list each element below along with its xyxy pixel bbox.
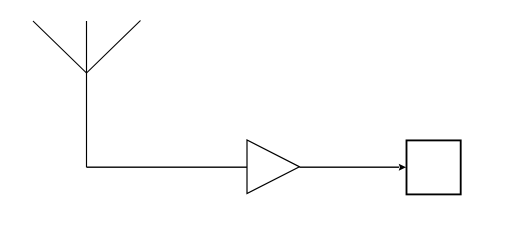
- antenna left arm: [33, 21, 87, 73]
- antenna right arm: [87, 21, 141, 74]
- wire from amplifier to box (with arrowhead): [300, 166, 400, 168]
- antenna: [33, 21, 141, 168]
- arrowhead: [399, 164, 406, 171]
- op-amp U1 (amplifier triangle): [247, 140, 300, 194]
- wire from antenna to amplifier: [87, 166, 248, 168]
- box (receiver block): [407, 140, 461, 194]
- antenna mast: [86, 21, 88, 167]
